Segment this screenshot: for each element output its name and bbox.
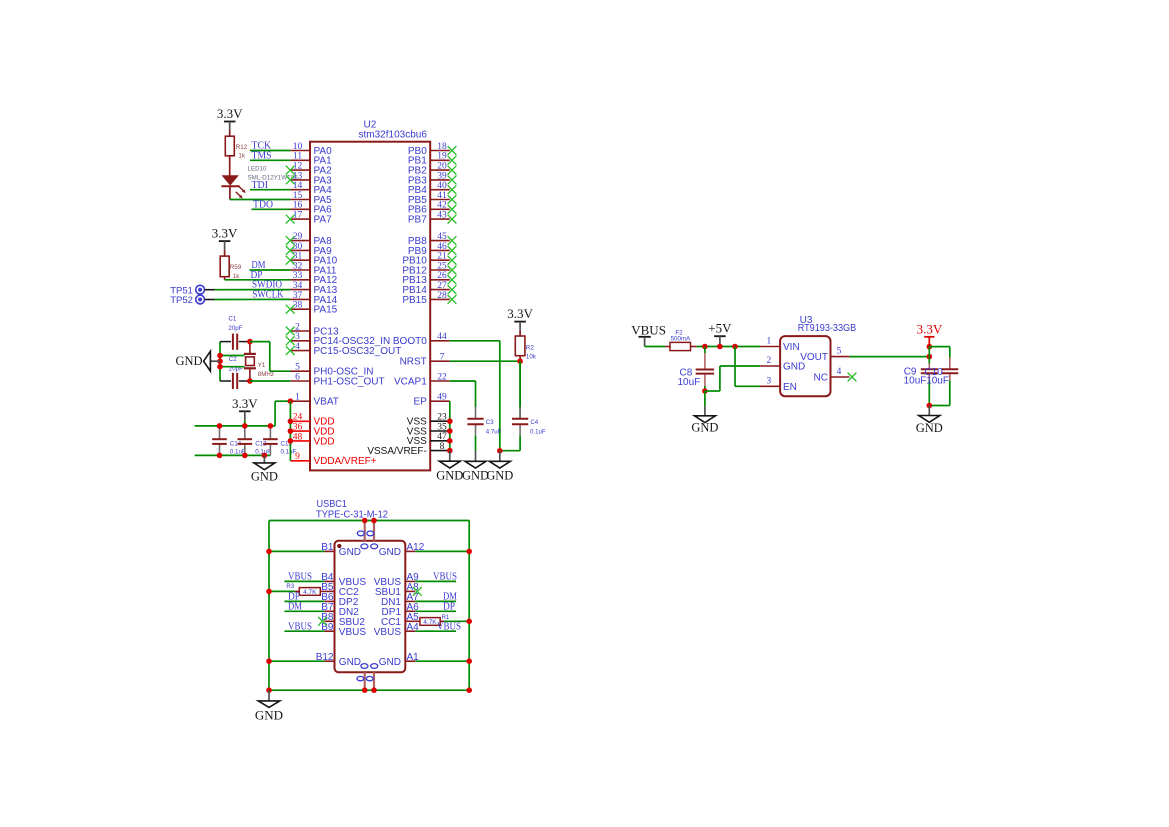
U2 pin 13 (PA3) <box>286 171 332 186</box>
capacitor C15 <box>263 426 278 456</box>
wire VCAP1 net <box>450 381 476 407</box>
wire NRST to C4 <box>519 361 521 418</box>
MCU U2 body <box>310 142 430 471</box>
wire B6 DP <box>284 600 324 602</box>
junction C9/C10 bottom <box>927 403 933 409</box>
U2 pin 3 (PC14-OSC32_IN) <box>286 332 390 347</box>
junction R3 left rail <box>266 589 272 595</box>
U2 pin 28 (PB15) <box>402 291 456 306</box>
svg-text:5: 5 <box>837 347 842 357</box>
ground symbol (USB shield) <box>255 690 283 722</box>
wire TDO to PA6 <box>252 208 291 210</box>
USBC1 pin A1 (GND) <box>379 652 419 668</box>
svg-text:43: 43 <box>437 211 447 221</box>
svg-text:TDO: TDO <box>253 198 273 210</box>
svg-text:2: 2 <box>766 356 771 366</box>
svg-text:24: 24 <box>293 413 303 423</box>
wire B12 GND <box>269 660 324 662</box>
svg-text:VOUT: VOUT <box>800 352 828 363</box>
svg-text:stm32f103cbu6: stm32f103cbu6 <box>359 130 428 141</box>
svg-text:15: 15 <box>293 191 303 201</box>
ground symbol (decoupling) <box>251 455 278 483</box>
wire B9 VBUS <box>284 630 324 632</box>
svg-text:TP52: TP52 <box>170 295 193 306</box>
junction EN <box>732 344 738 350</box>
svg-text:C1: C1 <box>228 316 236 323</box>
svg-text:33: 33 <box>293 271 303 281</box>
USBC1 shield pin top-left <box>364 521 366 541</box>
wire NRST net <box>450 360 520 362</box>
wire TDI to PA4 <box>250 189 290 191</box>
junction bottom-left corner <box>266 687 272 693</box>
svg-text:25: 25 <box>437 261 447 271</box>
junction top bus C14 <box>217 423 223 429</box>
svg-text:GND: GND <box>339 547 361 558</box>
U2 pin 6 (PH1-OSC_OUT) <box>290 372 384 387</box>
svg-text:7: 7 <box>440 353 445 363</box>
U2 pin 32 (PA11) <box>290 261 337 276</box>
power symbol 3.3V (R2 pull-up) <box>507 306 533 331</box>
svg-text:11: 11 <box>293 152 302 162</box>
wire USB right GND rail <box>468 521 470 691</box>
svg-text:PH1-OSC_OUT: PH1-OSC_OUT <box>314 376 385 387</box>
U2 pin 4 (PC15-OSC32_OUT) <box>286 342 402 357</box>
wire 3.3V top bus <box>195 401 291 426</box>
U2 pin 46 (PB9) <box>408 242 457 257</box>
USBC1 pin B4 (VBUS) <box>321 572 366 588</box>
U2 pin 15 (PA5) <box>290 191 332 206</box>
svg-text:42: 42 <box>437 201 447 211</box>
svg-text:36: 36 <box>293 423 303 433</box>
junction bottom bus GND <box>262 453 268 459</box>
svg-text:EN: EN <box>783 382 797 393</box>
U2 pin 38 (PA15) <box>286 301 338 316</box>
power symbol VBUS <box>631 322 666 346</box>
U2 pin 17 (PA7) <box>286 211 332 226</box>
svg-text:19: 19 <box>437 152 447 162</box>
U2 pin 2 (PC13) <box>286 322 339 337</box>
U3 pin 2 (GND) <box>760 356 805 372</box>
junction A12 right rail <box>466 549 472 555</box>
svg-text:VSSA/VREF-: VSSA/VREF- <box>367 446 426 457</box>
svg-text:VBUS: VBUS <box>339 627 367 638</box>
svg-text:VBAT: VBAT <box>314 397 339 408</box>
svg-text:1k: 1k <box>233 273 240 280</box>
svg-text:VBUS: VBUS <box>288 571 312 583</box>
resistor R1 4.7K <box>415 618 444 627</box>
USBC1 pin A5 (CC1) <box>381 612 419 628</box>
svg-text:GND: GND <box>176 354 203 368</box>
svg-text:47: 47 <box>437 432 447 442</box>
junction VBAT <box>288 398 294 404</box>
capacitor C10 <box>941 358 958 381</box>
junction A1 right rail <box>466 658 472 664</box>
U2 pin 22 (VCAP1) <box>394 372 450 387</box>
U2 pin 19 (PB1) <box>408 152 457 167</box>
wire crystal case pin lower <box>220 366 245 368</box>
U3 pin 5 (VOUT) <box>800 347 849 363</box>
resistor R3 4.7K <box>295 588 324 597</box>
wire C10 branch <box>929 347 950 406</box>
junction BOOT0 C4 GND <box>497 448 503 454</box>
wire VBUS to F2 <box>645 346 666 348</box>
svg-text:3.3V: 3.3V <box>232 396 258 411</box>
junction shield top-left <box>362 518 368 524</box>
svg-text:NC: NC <box>814 373 828 384</box>
junction NRST R2 <box>517 358 523 364</box>
junction C8 <box>702 344 708 350</box>
svg-text:0.1uF: 0.1uF <box>281 449 297 456</box>
svg-text:BOOT0: BOOT0 <box>393 336 427 347</box>
svg-text:GND: GND <box>486 468 513 482</box>
svg-text:20: 20 <box>437 162 447 172</box>
U2 pin 26 (PB13) <box>402 271 456 286</box>
wire R1 to right rail <box>444 620 469 622</box>
wire GND bottom bus <box>195 454 271 456</box>
svg-text:VBUS: VBUS <box>437 621 461 633</box>
junction +5V <box>717 344 723 350</box>
svg-text:VBUS: VBUS <box>374 627 402 638</box>
svg-text:49: 49 <box>437 393 447 403</box>
U2 pin 20 (PB2) <box>408 162 457 177</box>
LED LED10 <box>221 176 245 200</box>
U2 pin 21 (PB10) <box>402 252 456 267</box>
svg-text:48: 48 <box>293 432 303 442</box>
junction crystal bottom <box>247 378 253 384</box>
svg-text:8: 8 <box>440 442 445 452</box>
junction 3.3V C10 branch <box>927 344 933 350</box>
svg-text:GND: GND <box>916 421 943 435</box>
regulator U3 body <box>780 336 830 396</box>
svg-text:GND: GND <box>255 708 283 723</box>
U2 pin 36 (VDD) <box>290 423 334 438</box>
svg-text:23: 23 <box>437 413 447 423</box>
U2 pin 24 (VDD) <box>290 413 334 428</box>
junction VSS pin 47 <box>447 438 453 444</box>
wire PH0 net (crystal top to pin 5) <box>250 342 291 372</box>
wire B4 VBUS <box>284 580 324 582</box>
wire TMS to PA1 <box>250 159 290 161</box>
svg-text:1: 1 <box>295 393 300 403</box>
USBC1 pin B1 (GND) <box>321 542 361 558</box>
wire C8 junction to ground <box>704 391 706 406</box>
U2 pin 8 (VSSA/VREF-) <box>367 442 449 457</box>
ground symbol (C3) <box>462 451 489 482</box>
svg-text:37: 37 <box>293 291 303 301</box>
junction GND stub <box>217 358 223 364</box>
USBC1 pin B6 (DP2) <box>321 592 358 608</box>
fuse F2 <box>665 342 696 350</box>
svg-text:3.3V: 3.3V <box>212 226 238 241</box>
svg-text:R3: R3 <box>286 584 294 590</box>
svg-text:2: 2 <box>295 322 300 332</box>
junction B12 left rail <box>266 658 272 664</box>
svg-text:28: 28 <box>437 291 447 301</box>
USBC1 pin A9 (VBUS) <box>374 572 419 588</box>
U2 pin 14 (PA4) <box>290 181 332 196</box>
U2 pin 5 (PH0-OSC_IN) <box>290 363 373 378</box>
U2 pin 7 (NRST) <box>400 353 450 368</box>
U2 pin 11 (PA1) <box>290 152 332 167</box>
junction C8 bottom / U3 GND <box>702 388 708 394</box>
U2 pin 43 (PB7) <box>408 211 457 226</box>
svg-text:22: 22 <box>437 372 447 382</box>
svg-text:VDDA/VREF+: VDDA/VREF+ <box>314 456 377 467</box>
capacitor C4 <box>512 407 528 436</box>
svg-text:4.7K: 4.7K <box>303 589 317 596</box>
U2 pin 30 (PA9) <box>286 242 332 257</box>
U2 pin 27 (PB14) <box>402 281 456 296</box>
svg-text:NRST: NRST <box>400 357 427 368</box>
svg-text:500mA: 500mA <box>671 335 691 342</box>
svg-text:GND: GND <box>436 468 463 482</box>
svg-text:3.3V: 3.3V <box>217 106 243 121</box>
junction bottom bus C14 <box>217 453 223 459</box>
wire LED cathode to PA5 <box>230 199 291 201</box>
USBC1 pin A4 (VBUS) <box>374 622 419 638</box>
wire VDD rail <box>289 401 291 461</box>
svg-text:R12: R12 <box>236 144 248 151</box>
svg-text:GND: GND <box>379 547 401 558</box>
svg-text:3: 3 <box>766 376 771 386</box>
junction VDD pin 36 <box>288 428 294 434</box>
junction top bus C15 <box>268 423 274 429</box>
wire VOUT to 3.3V <box>849 356 929 358</box>
USBC1 shield pin bottom-right <box>373 672 375 690</box>
svg-text:16: 16 <box>293 201 303 211</box>
svg-text:4: 4 <box>295 342 300 352</box>
svg-text:0.1uF: 0.1uF <box>530 429 546 436</box>
U2 pin 29 (PA8) <box>286 232 332 247</box>
wire BOOT0 net <box>450 341 500 451</box>
junction VDD pin 48 <box>288 438 294 444</box>
U2 pin 39 (PB3) <box>408 171 457 186</box>
wire left rail to R3 <box>269 590 295 592</box>
capacitor C13 <box>238 426 253 456</box>
junction VSSA pin 8 <box>447 448 453 454</box>
svg-text:4: 4 <box>837 367 842 377</box>
svg-text:PA15: PA15 <box>314 305 338 316</box>
svg-text:VDD: VDD <box>314 436 335 447</box>
svg-text:45: 45 <box>437 232 447 242</box>
USBC1 pin B9 (VBUS) <box>321 622 366 638</box>
wire USB bottom GND run <box>269 689 469 691</box>
svg-text:10uF: 10uF <box>678 377 701 388</box>
resistor R12 <box>225 131 234 176</box>
svg-text:DM: DM <box>288 600 302 612</box>
USBC1 pin A8 (SBU1) <box>375 582 419 598</box>
svg-text:20pF: 20pF <box>228 325 242 332</box>
svg-text:DP: DP <box>443 600 455 612</box>
svg-text:R59: R59 <box>230 264 242 271</box>
wire A4 VBUS <box>415 630 456 632</box>
ground symbol (BOOT0/C4) <box>486 451 513 483</box>
USBC1 pin A6 (DP1) <box>382 602 420 618</box>
svg-text:SWCLK: SWCLK <box>253 289 284 301</box>
U2 pin 18 (PB0) <box>408 142 457 157</box>
svg-text:R2: R2 <box>526 344 534 351</box>
wire U3 EN to VIN <box>735 347 760 387</box>
no-connect A8 <box>413 587 422 596</box>
junction crystal top <box>247 339 253 345</box>
junction shield bottom-right <box>371 687 377 693</box>
svg-text:40: 40 <box>437 181 447 191</box>
wire TP52 to PA14 (SWCLK) <box>205 298 291 300</box>
USBC1 shield pin bottom-left <box>364 672 366 690</box>
svg-text:14: 14 <box>293 181 303 191</box>
svg-text:10k: 10k <box>526 354 537 361</box>
svg-text:21: 21 <box>437 252 447 262</box>
svg-text:5: 5 <box>295 363 300 373</box>
U2 pin 31 (PA10) <box>286 252 338 267</box>
svg-text:TYPE-C-31-M-12: TYPE-C-31-M-12 <box>316 510 388 521</box>
svg-text:VBUS: VBUS <box>433 571 457 583</box>
svg-text:3.3V: 3.3V <box>507 306 533 321</box>
svg-text:1k: 1k <box>238 152 245 159</box>
U2 pin 33 (PA12) <box>290 271 337 286</box>
svg-text:GND: GND <box>691 421 718 435</box>
ground symbol (C9/C10) <box>916 406 943 435</box>
testpoint TP51 <box>196 285 205 294</box>
capacitor C1 <box>220 334 250 350</box>
wire crystal case pin upper <box>220 355 245 357</box>
junction case upper <box>217 353 223 359</box>
svg-text:10uF: 10uF <box>904 376 927 387</box>
svg-text:32: 32 <box>293 261 303 271</box>
wire A12 GND <box>415 550 469 552</box>
U2 pin 23 (VSS) <box>407 413 450 428</box>
svg-text:6: 6 <box>295 372 300 382</box>
U2 pin 49 (EP) <box>413 393 449 408</box>
U2 pin 10 (PA0) <box>290 142 332 157</box>
svg-text:1: 1 <box>766 337 771 347</box>
svg-text:PA7: PA7 <box>314 215 333 226</box>
svg-text:VBUS: VBUS <box>631 322 666 337</box>
junction case lower <box>217 364 223 370</box>
svg-text:3: 3 <box>295 332 300 342</box>
U3 pin 1 (VIN) <box>760 337 800 353</box>
wire PH1 net (crystal bottom to pin 6) <box>250 380 291 382</box>
wire DP to PA12 from R59 <box>225 279 291 281</box>
crystal Y1 <box>244 342 256 381</box>
svg-text:VBUS: VBUS <box>288 620 312 632</box>
U2 pin 37 (PA14) <box>290 291 337 306</box>
testpoint TP52 <box>196 295 205 304</box>
svg-text:TMS: TMS <box>252 149 272 161</box>
U2 pin 40 (PB4) <box>408 181 457 196</box>
svg-text:C4: C4 <box>530 419 538 426</box>
power symbol 3.3V (R59 pull-up) <box>212 226 238 251</box>
wire B7 DM <box>284 610 324 612</box>
USBC1 pin B5 (CC2) <box>321 582 359 598</box>
wire A1 GND <box>415 660 469 662</box>
connector USBC1 body <box>335 541 406 672</box>
svg-text:35: 35 <box>437 422 447 432</box>
U3 pin 4 (NC) <box>814 367 857 383</box>
wire USB left GND rail <box>268 521 270 691</box>
wire TP51 to PA13 (SWDIO) <box>205 289 291 291</box>
svg-text:PB15: PB15 <box>402 295 427 306</box>
svg-text:PB7: PB7 <box>408 215 427 226</box>
svg-text:LED10: LED10 <box>248 165 267 172</box>
wire U3 GND pin to C8 junction <box>705 366 760 391</box>
stray junction dot near B1 GND <box>337 544 341 548</box>
wire TCK to PA0 <box>250 150 290 152</box>
U2 pin 25 (PB12) <box>402 261 456 276</box>
svg-text:C2: C2 <box>229 356 237 363</box>
svg-text:GND: GND <box>379 657 401 668</box>
U2 pin 34 (PA13) <box>290 281 337 296</box>
capacitor C3 <box>467 407 483 436</box>
wire DM to PA11 <box>250 269 291 271</box>
svg-text:10: 10 <box>293 142 303 152</box>
wire crystal left rail <box>219 342 221 381</box>
U2 pin 48 (VDD) <box>290 432 334 447</box>
junction B1 left rail <box>266 549 272 555</box>
junction bottom-right corner <box>466 687 472 693</box>
svg-text:10uF: 10uF <box>926 376 949 387</box>
USBC1 mounting ovals top outer <box>357 531 374 536</box>
svg-text:46: 46 <box>437 242 447 252</box>
svg-text:+5V: +5V <box>708 321 732 336</box>
U2 pin 12 (PA2) <box>286 162 332 177</box>
svg-text:27: 27 <box>437 281 447 291</box>
junction 3.3V VOUT <box>927 354 933 360</box>
USBC1 shield pin top-right <box>373 521 375 541</box>
wire EP/VSS rail <box>449 401 451 450</box>
svg-text:C3: C3 <box>486 419 494 426</box>
U2 pin 16 (PA6) <box>290 201 332 216</box>
U2 pin 45 (PB8) <box>408 232 457 247</box>
ground symbol (C8) <box>691 406 718 434</box>
wire USB top GND run <box>269 520 469 522</box>
U2 pin 47 (VSS) <box>407 432 450 447</box>
capacitor C2 <box>220 373 250 389</box>
power symbol 3.3V (decoupling) <box>232 396 258 421</box>
junction VDD pin 24 <box>288 419 294 425</box>
capacitor C14 <box>212 426 227 456</box>
svg-text:EP: EP <box>413 397 427 408</box>
ground symbol (crystal, sideways) <box>176 351 220 371</box>
resistor R59 <box>220 250 229 280</box>
svg-text:34: 34 <box>293 281 303 291</box>
svg-text:GND: GND <box>339 657 361 668</box>
svg-text:TDI: TDI <box>252 179 269 191</box>
USBC1 pin B8 (SBU2) <box>321 612 365 628</box>
junction VSS pin 23 <box>447 418 453 424</box>
svg-text:3.3V: 3.3V <box>917 321 943 336</box>
ground symbol (VSS) <box>436 451 463 483</box>
power symbol 3.3V (R12 pull-up) <box>217 106 243 131</box>
U2 pin 9 (VDDA/VREF+) <box>290 452 376 467</box>
svg-text:Y1: Y1 <box>258 362 266 369</box>
wire +5V bus to U3 VIN <box>697 346 761 348</box>
USBC1 mounting ovals bottom outer <box>357 676 373 680</box>
svg-text:4.7uF: 4.7uF <box>486 429 502 436</box>
power symbol 3.3V (output, red) <box>917 321 943 346</box>
junction shield bottom-left <box>362 687 368 693</box>
svg-text:18: 18 <box>437 142 447 152</box>
junction VSS pin 35 <box>447 428 453 434</box>
USBC1 pin A7 (DN1) <box>381 592 419 608</box>
U2 pin 1 (VBAT) <box>290 393 338 408</box>
svg-text:GND: GND <box>783 362 805 373</box>
USBC1 pin B12 (GND) <box>316 652 361 668</box>
USBC1 mounting ovals bottom inner <box>361 664 378 669</box>
USBC1 pin B7 (DN2) <box>321 602 359 618</box>
svg-text:GND: GND <box>251 470 278 484</box>
junction top bus 3.3V <box>242 423 248 429</box>
